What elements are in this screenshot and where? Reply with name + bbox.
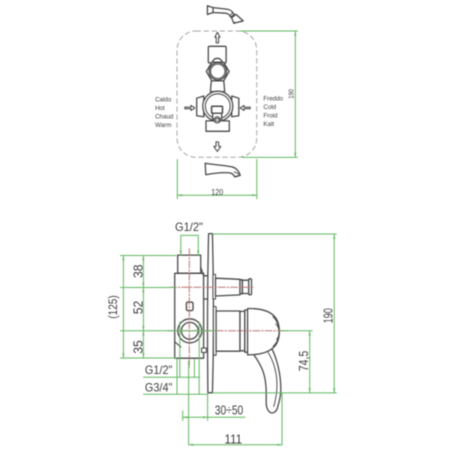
hex nut	[206, 62, 229, 81]
valve circle inner (side)	[181, 322, 198, 339]
red centerline valve	[168, 330, 288, 332]
stem dome	[212, 58, 222, 68]
red centerline vertical	[188, 249, 190, 368]
down flow arrow	[214, 142, 221, 152]
ext 30-50 left	[182, 411, 184, 421]
ext plate down	[207, 394, 209, 421]
svg-text:G3/4": G3/4"	[145, 380, 173, 394]
handle inner line	[268, 353, 277, 407]
neck	[210, 81, 224, 92]
dim line 190 side	[333, 234, 335, 393]
svg-text:52: 52	[131, 301, 145, 315]
dim line (125)	[122, 256, 124, 359]
shower outlet pipe	[216, 278, 241, 296]
green dim arrows (side view)	[122, 234, 335, 446]
svg-text:74,5: 74,5	[297, 351, 311, 372]
shower outlet end cap	[249, 279, 252, 295]
dim line 38/52/35	[142, 256, 144, 359]
G1/2 leader	[144, 376, 200, 378]
body top pipe	[178, 255, 201, 273]
ext threads g34	[177, 322, 199, 394]
ext shower port CL	[120, 287, 176, 289]
cartridge upper box	[212, 106, 223, 113]
svg-text:(125): (125)	[108, 295, 120, 319]
plate bottom reference	[213, 392, 337, 394]
tub spout icon	[205, 163, 240, 177]
cold inlet arrow	[240, 105, 250, 110]
body lower step line	[175, 342, 181, 347]
dim 190 arrows	[294, 31, 296, 157]
G1/2 top bracket	[181, 235, 199, 255]
nut outer ring	[209, 63, 226, 80]
ext valve CL	[120, 330, 216, 332]
valve body inner circle	[205, 94, 230, 119]
dim 120 arrows	[177, 194, 256, 196]
handle dome	[248, 308, 280, 354]
ext bottom of body	[120, 357, 176, 359]
dashed wall plate (front view)	[177, 31, 257, 157]
svg-text:Warm: Warm	[155, 122, 171, 129]
bottom port boss rect	[206, 121, 229, 131]
valve sleeve ring	[240, 311, 245, 350]
valve sleeve cylinder	[216, 311, 240, 351]
G3/4 leader	[144, 393, 208, 395]
handle lever	[251, 347, 281, 413]
dome highlight arc	[273, 317, 279, 347]
handle hub	[245, 310, 248, 352]
top port boss rect	[208, 46, 226, 63]
dim 190 (front view) extension lines	[241, 31, 298, 157]
plate top reference	[213, 233, 336, 235]
valve sleeve flange	[213, 307, 216, 356]
valve body outer circle	[203, 91, 233, 121]
ext top of body	[120, 255, 176, 257]
upper port boss between body and plate	[204, 276, 209, 299]
hot labels	[155, 96, 174, 129]
green extension + dimension lines (side view)	[120, 234, 336, 445]
right inlet boss	[232, 96, 239, 117]
bottom right foot	[202, 348, 207, 353]
cartridge lower box	[213, 113, 222, 119]
dim line 111	[189, 444, 282, 446]
svg-text:35: 35	[131, 340, 145, 354]
body main block	[175, 273, 204, 358]
nut inner ring	[211, 64, 225, 78]
svg-text:Hot: Hot	[155, 105, 165, 112]
svg-text:G1/2": G1/2"	[145, 363, 173, 377]
dim line 74,5	[309, 331, 311, 393]
wall plate (side view)	[208, 234, 214, 393]
svg-text:38: 38	[131, 265, 145, 279]
shower outlet nipple	[242, 280, 248, 293]
screw slot square	[216, 119, 219, 122]
shower head icon	[207, 6, 243, 24]
body chamfer	[201, 267, 204, 276]
dim line 30÷50	[183, 416, 245, 418]
left inlet boss	[197, 96, 204, 117]
svg-text:190: 190	[321, 308, 335, 323]
svg-text:G1/2": G1/2"	[175, 220, 203, 234]
ext center down	[188, 361, 190, 445]
hot inlet arrow	[185, 105, 195, 110]
svg-text:Caldo: Caldo	[155, 96, 172, 103]
svg-text:Chaud: Chaud	[155, 113, 174, 120]
svg-text:190: 190	[286, 89, 295, 99]
svg-text:Kalt: Kalt	[263, 121, 274, 128]
svg-text:30÷50: 30÷50	[215, 404, 244, 418]
svg-text:120: 120	[211, 187, 223, 197]
upper port backing ring	[213, 274, 216, 299]
cartridge screw circle	[214, 117, 220, 123]
dim 120 extension lines	[177, 160, 256, 199]
ext threads g12	[180, 322, 195, 377]
svg-text:111: 111	[225, 433, 243, 447]
red centerline shower port	[170, 286, 254, 288]
valve circle outer (side)	[178, 319, 202, 343]
shower outlet step	[240, 280, 242, 294]
cold labels	[263, 95, 283, 128]
cartridge clip	[186, 302, 193, 311]
svg-text:Freddo: Freddo	[263, 95, 283, 102]
svg-text:Froid: Froid	[263, 112, 278, 119]
ext valve CL right to 74,5	[280, 330, 313, 332]
ext handle down	[281, 394, 283, 445]
up flow arrow	[215, 32, 220, 43]
svg-text:Cold: Cold	[263, 104, 276, 111]
